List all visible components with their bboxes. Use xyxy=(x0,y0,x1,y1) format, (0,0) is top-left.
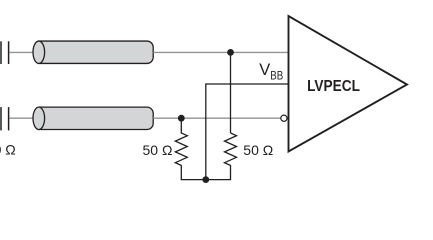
op-amp / receiver triangle LVPECL xyxy=(289,16,408,152)
resistor R1 50 ohm (left) xyxy=(175,118,187,179)
bottom rail joining resistors xyxy=(181,179,231,181)
node junction dot on bottom wire xyxy=(178,115,185,122)
coax transmission line (top) xyxy=(33,41,153,63)
inverting input bubble xyxy=(281,115,287,121)
svg-text:LVPECL: LVPECL xyxy=(307,78,360,95)
capacitor C1 (top, left edge cut off) xyxy=(1,41,9,64)
svg-text:V: V xyxy=(259,61,270,79)
wire from top node down to resistor R2 xyxy=(230,52,232,133)
svg-text:50 Ω: 50 Ω xyxy=(143,142,173,158)
wire C2 to bottom coax xyxy=(9,117,34,119)
svg-text:50 Ω: 50 Ω xyxy=(243,142,273,158)
wire top coax to LVPECL input xyxy=(153,51,288,53)
node junction dot on bottom rail xyxy=(202,176,209,183)
capacitor C2 (bottom, left edge cut off) xyxy=(1,107,9,130)
coax transmission line (bottom) xyxy=(33,107,153,129)
wire bottom coax to inverting input bubble xyxy=(153,117,280,119)
svg-text:50 Ω: 50 Ω xyxy=(0,142,16,158)
svg-text:BB: BB xyxy=(270,70,283,83)
node junction dot on top wire xyxy=(227,49,234,56)
VBB wire (horizontal from LVPECL then down to rail) xyxy=(206,84,289,180)
resistor R2 50 ohm (right) xyxy=(225,133,237,180)
wire C1 to top coax xyxy=(9,51,34,53)
